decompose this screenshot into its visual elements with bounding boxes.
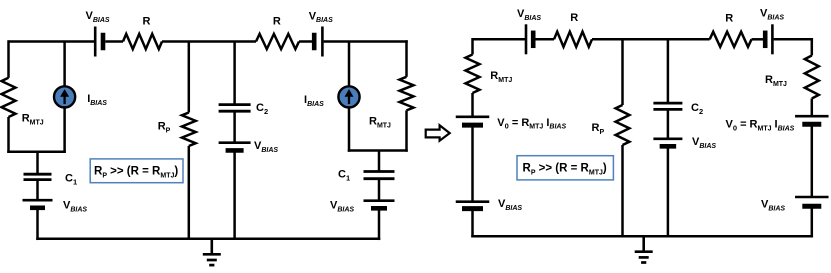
wire top rail left segment (right circuit) bbox=[473, 38, 527, 41]
label V_0 = R_MTJ I_BIAS (right) bbox=[726, 119, 795, 133]
battery V2 (VBIAS, left circuit top-right) bbox=[314, 27, 322, 57]
label V_BIAS right of battery V3 bbox=[63, 200, 87, 214]
svg-text:RMTJ: RMTJ bbox=[765, 74, 787, 88]
wire bottom rail (left circuit) bbox=[36, 238, 380, 241]
svg-text:V0 = RMTJ IBIAS: V0 = RMTJ IBIAS bbox=[726, 119, 795, 133]
wire battery V10 down to bottom rail bbox=[667, 146, 670, 236]
wire battery V8 to battery V9 bbox=[471, 125, 474, 202]
wire top-left corner down to R_MTJ (right circuit) bbox=[471, 38, 474, 54]
wire R to battery V2 bbox=[299, 40, 312, 43]
svg-text:V0 = RMTJ IBIAS: V0 = RMTJ IBIAS bbox=[497, 117, 566, 131]
resistor R (right circuit, right) bbox=[710, 32, 752, 47]
wire top-right corner down to R_MTJ bbox=[405, 40, 408, 77]
label V_BIAS left of battery V5 bbox=[330, 200, 354, 214]
label V_BIAS right of battery V4 bbox=[254, 140, 278, 154]
wire top rail down to resistor R_P (right circuit) bbox=[621, 39, 624, 105]
svg-text:C1: C1 bbox=[65, 173, 77, 187]
battery V1 (VBIAS, left circuit top-left) bbox=[95, 27, 103, 57]
label C_1 right branch bbox=[338, 169, 350, 183]
wire top-right corner down to R_MTJ (right circuit) bbox=[811, 38, 814, 55]
label V_BIAS right of battery V10 bbox=[692, 136, 716, 150]
svg-text:VBIAS: VBIAS bbox=[63, 200, 87, 214]
wire joining node horizontal (left) bbox=[7, 150, 66, 153]
label R above left resistor bbox=[143, 16, 151, 28]
wire R_MTJ to battery V11 bbox=[811, 99, 814, 117]
battery V5 (VBIAS, left circuit bottom-right) bbox=[364, 201, 395, 209]
label V_BIAS above battery V7 bbox=[760, 8, 784, 22]
wire battery V5 down to bottom rail bbox=[378, 208, 381, 240]
current source I2 (IBIAS, left circuit right) bbox=[338, 86, 359, 107]
label C_2 right of capacitor C2 bbox=[256, 102, 268, 116]
battery V4 (VBIAS, left circuit middle) bbox=[219, 143, 251, 151]
svg-text:VBIAS: VBIAS bbox=[760, 8, 784, 22]
label V_BIAS right of battery V9 bbox=[498, 198, 522, 212]
svg-text:C2: C2 bbox=[256, 102, 268, 116]
battery V3 (VBIAS, left circuit bottom-left) bbox=[23, 200, 53, 208]
svg-text:C2: C2 bbox=[691, 102, 703, 116]
label V_BIAS above battery V1 bbox=[86, 10, 110, 24]
label R_MTJ left branch (right circuit) bbox=[490, 70, 512, 84]
svg-text:VBIAS: VBIAS bbox=[254, 140, 278, 154]
capacitor C1 (left circuit, left) bbox=[24, 174, 52, 179]
wire top rail down to current source I2 bbox=[348, 42, 351, 88]
wire capacitor C2 to battery V4 bbox=[233, 111, 236, 143]
resistor R (left circuit, left) bbox=[123, 34, 162, 49]
svg-text:VBIAS: VBIAS bbox=[86, 10, 110, 24]
wire battery V1 to resistor R bbox=[105, 40, 123, 43]
wire R_MTJ to battery V8 bbox=[471, 93, 474, 117]
wire battery V2 to top-right corner bbox=[324, 40, 408, 43]
resistor R (right circuit, left) bbox=[554, 32, 592, 47]
svg-text:VBIAS: VBIAS bbox=[309, 10, 333, 24]
wire capacitor C1 to battery V5 bbox=[378, 179, 381, 201]
label V_BIAS left of battery V12 bbox=[761, 199, 785, 213]
resistor R_P (right circuit) bbox=[616, 105, 630, 145]
wire bottom rail (right circuit) bbox=[471, 235, 813, 238]
wire current source I1 down to joining node bbox=[63, 106, 66, 153]
svg-text:RP: RP bbox=[158, 121, 171, 135]
label I_BIAS right of current source I1 bbox=[87, 93, 107, 107]
ground (right circuit) bbox=[635, 236, 653, 262]
resistor R_MTJ (right circuit, right) bbox=[805, 56, 819, 99]
resistor R_P (left circuit) bbox=[182, 113, 196, 147]
svg-text:RP: RP bbox=[592, 122, 605, 136]
svg-text:R: R bbox=[725, 12, 733, 24]
label R_P (right circuit) bbox=[592, 122, 605, 136]
label V_0 = R_MTJ I_BIAS (left) bbox=[497, 117, 566, 131]
label R above right resistor bbox=[273, 16, 281, 28]
wire R to mid junction rail bbox=[162, 40, 256, 43]
capacitor C2 (left circuit) bbox=[219, 105, 251, 112]
wire top-left rail segment bbox=[9, 40, 96, 43]
wire resistor R_P down to bottom rail bbox=[188, 146, 191, 239]
battery V7 (VBIAS, right circuit top-right) bbox=[765, 24, 772, 54]
wire battery V9 down to bottom rail bbox=[471, 209, 474, 238]
label R above right resistor (right circuit) bbox=[725, 12, 733, 24]
annotation box RP >> (R = RMTJ) (right circuit) bbox=[517, 156, 613, 180]
svg-text:IBIAS: IBIAS bbox=[304, 94, 324, 108]
battery V11 (V0, right circuit right) bbox=[795, 116, 829, 124]
battery V12 (VBIAS, right circuit bottom-right) bbox=[795, 197, 829, 206]
svg-text:RMTJ: RMTJ bbox=[490, 70, 512, 84]
wire capacitor C2 to battery V10 bbox=[667, 109, 670, 138]
resistor R (left circuit, right) bbox=[256, 34, 299, 49]
label I_BIAS left of current source I2 bbox=[304, 94, 324, 108]
wire top rail down to capacitor C2 (right circuit) bbox=[667, 39, 670, 103]
svg-text:VBIAS: VBIAS bbox=[692, 136, 716, 150]
block arrow between circuits bbox=[426, 125, 450, 140]
wire top rail down to resistor R_P bbox=[188, 42, 191, 113]
svg-text:RMTJ: RMTJ bbox=[369, 116, 391, 130]
wire right joining node down to capacitor C1 bbox=[378, 151, 381, 172]
wire battery V4 down to bottom rail bbox=[233, 150, 236, 238]
wire joining node down to capacitor C1 bbox=[36, 152, 39, 174]
wire battery V3 down to bottom rail bbox=[36, 208, 39, 240]
wire R_MTJ down to right joining node bbox=[405, 110, 408, 151]
svg-text:R: R bbox=[273, 16, 281, 28]
label C_2 (right circuit) bbox=[691, 102, 703, 116]
wire R to mid junction (right circuit) bbox=[592, 38, 710, 41]
label V_BIAS above battery V6 bbox=[517, 8, 541, 22]
svg-text:VBIAS: VBIAS bbox=[517, 8, 541, 22]
label V_BIAS above battery V2 bbox=[309, 10, 333, 24]
capacitor C1 (left circuit, right) bbox=[364, 172, 395, 179]
label R_MTJ left branch bbox=[22, 113, 44, 127]
wire top rail down to capacitor C2 bbox=[233, 42, 236, 105]
svg-text:VBIAS: VBIAS bbox=[330, 200, 354, 214]
current source I1 (IBIAS, left circuit) bbox=[54, 86, 75, 107]
wire resistor R_P down to bottom rail (right circuit) bbox=[621, 145, 624, 236]
wire battery V12 down to bottom rail bbox=[811, 206, 814, 237]
svg-text:RMTJ: RMTJ bbox=[22, 113, 44, 127]
wire battery V6 to resistor R bbox=[536, 38, 555, 41]
wire R to battery V7 bbox=[752, 38, 764, 41]
label R_MTJ right branch (right circuit) bbox=[765, 74, 787, 88]
wire top-left corner down to R_MTJ bbox=[7, 40, 10, 78]
battery V6 (VBIAS, right circuit top-left) bbox=[526, 24, 533, 54]
battery V10 (VBIAS, right circuit middle) bbox=[653, 139, 682, 147]
wire battery V11 to battery V12 bbox=[811, 124, 814, 197]
wire top rail down to current source I1 bbox=[63, 42, 66, 88]
wire battery V7 to top-right corner bbox=[774, 38, 813, 41]
label C_1 left branch bbox=[65, 173, 77, 187]
label R above left resistor (right circuit) bbox=[570, 12, 578, 24]
svg-text:C1: C1 bbox=[338, 169, 350, 183]
wire joining node horizontal (right) bbox=[348, 149, 408, 152]
svg-text:IBIAS: IBIAS bbox=[87, 93, 107, 107]
capacitor C2 (right circuit) bbox=[653, 103, 682, 109]
svg-text:R: R bbox=[570, 12, 578, 24]
wire capacitor C1 to battery V3 bbox=[36, 180, 39, 201]
annotation box RP >> (R = RMTJ) (left circuit) bbox=[90, 159, 183, 183]
wire R_MTJ down to joining node bbox=[7, 117, 10, 153]
svg-text:VBIAS: VBIAS bbox=[498, 198, 522, 212]
label R_MTJ right branch bbox=[369, 116, 391, 130]
resistor R_MTJ (left circuit, right) bbox=[400, 77, 414, 111]
wire current source I2 down to right joining node bbox=[348, 106, 351, 151]
ground (left circuit) bbox=[203, 239, 221, 265]
battery V9 (VBIAS, right circuit bottom-left) bbox=[456, 202, 490, 209]
battery V8 (V0, right circuit left) bbox=[456, 117, 490, 125]
svg-text:VBIAS: VBIAS bbox=[761, 199, 785, 213]
svg-text:R: R bbox=[143, 16, 151, 28]
resistor R_MTJ (left circuit, left) bbox=[2, 78, 16, 117]
resistor R_MTJ (right circuit, left) bbox=[466, 55, 480, 94]
label R_P left of resistor R_P bbox=[158, 121, 171, 135]
